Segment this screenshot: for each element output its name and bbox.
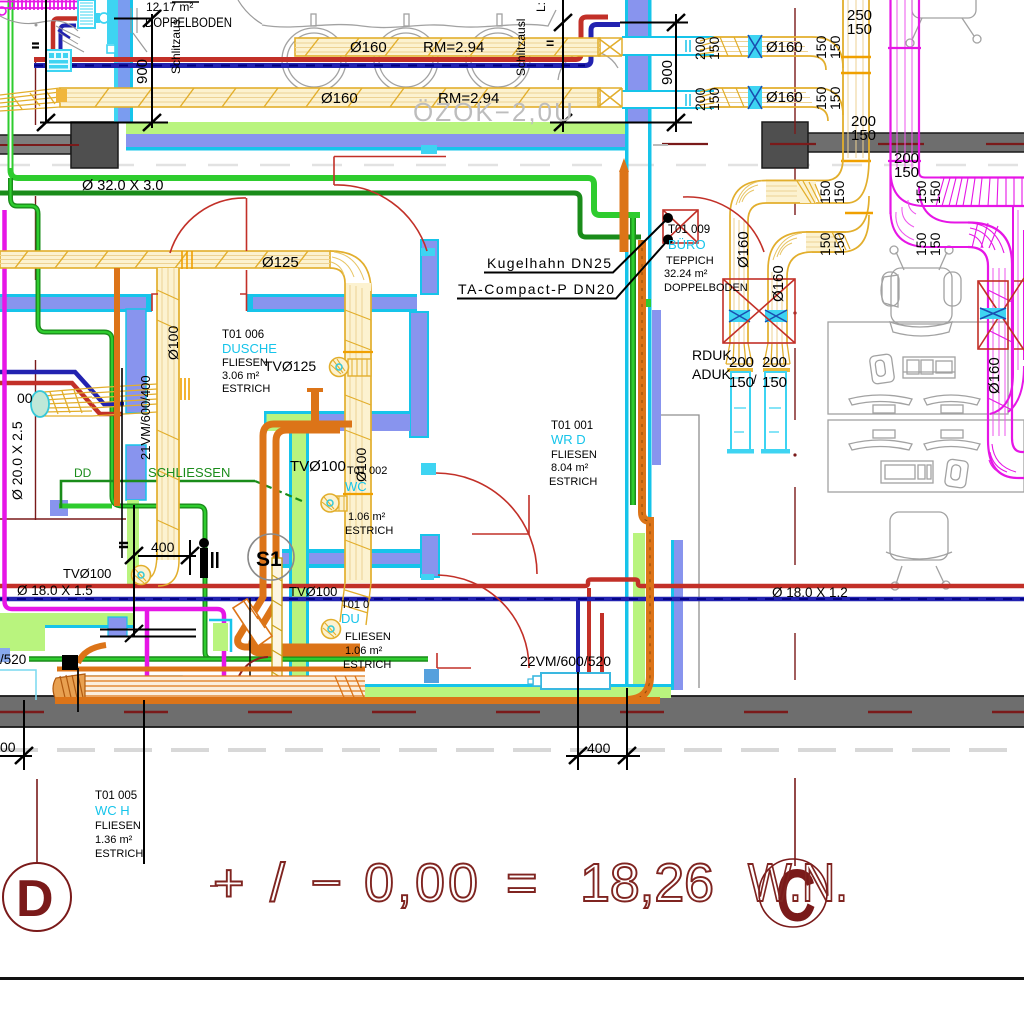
duct B nozzle bowtie right (598, 88, 622, 107)
dim 400 bottom (578, 672, 627, 770)
svg-text:900: 900 (659, 60, 676, 85)
svg-text:RM=2.94: RM=2.94 (423, 39, 484, 56)
keyboard curved desk1 left (849, 395, 912, 405)
pipe bright green in shaft (630, 218, 636, 505)
svg-text:ESTRICH: ESTRICH (95, 848, 143, 860)
terminal TV0125 stub (348, 359, 371, 376)
WC-H cyan line under (45, 625, 133, 628)
axis dash maroon bottom corridor (0, 711, 1024, 713)
cyan line bottom left corner (0, 670, 36, 700)
svg-text:150: 150 (827, 86, 843, 110)
svg-text:TVØ100: TVØ100 (63, 566, 111, 581)
duct flange ticks under nozzles (727, 368, 753, 372)
valve dot TA-Compact (663, 235, 673, 245)
door leaf gray top left (131, 8, 147, 52)
dim 400 mid-left (134, 505, 190, 636)
grid line C lower stem (794, 778, 796, 866)
duct run B nozzle (764, 343, 790, 364)
duct A nozzle bowtie (598, 38, 622, 56)
red niche lines WRD (472, 495, 529, 534)
office chair lower (890, 512, 948, 560)
light blue block left edge (0, 648, 10, 662)
svg-text:/520: /520 (0, 652, 26, 667)
marker box red T01009 (663, 210, 698, 243)
corridor wall shaft: cyan line west (625, 0, 629, 697)
wall vertical left: lavender (118, 0, 130, 122)
duct yellow narrow riser WC (272, 558, 282, 688)
wall band top: cyan edge (126, 147, 628, 151)
pipe blue bottom (0, 597, 1024, 602)
duct run A vertical (730, 216, 748, 343)
duct B damper cyan (748, 86, 762, 109)
svg-text:150: 150 (762, 374, 787, 391)
svg-text:FLIESEN: FLIESEN (345, 631, 391, 643)
svg-text:150: 150 (706, 87, 722, 111)
duct V4 vertical (157, 268, 179, 560)
svg-text:200: 200 (729, 354, 754, 371)
duct V5 elbow to upper run (891, 170, 941, 206)
svg-text:FLIESEN: FLIESEN (95, 820, 141, 832)
door arc WC bottom (437, 575, 529, 668)
black square symbol (62, 655, 78, 670)
duct magenta V5 vertical (891, 0, 920, 214)
keyboard curved desk2 left (849, 440, 912, 450)
damper cyan on V6 (980, 308, 1006, 319)
lavender block x50 (50, 500, 68, 516)
svg-text:150: 150 (894, 164, 919, 181)
svg-text:Ø125: Ø125 (262, 254, 299, 271)
bottom wall cyan line (300, 684, 671, 688)
grid line D lower stem (36, 779, 38, 863)
dim x00 bottom left (23, 700, 25, 770)
valve black S1 area (199, 538, 209, 548)
terminal TV0100 stub upper (330, 496, 347, 511)
duct V1 lower joint tick (845, 212, 873, 214)
WC-H room top wall light green (0, 613, 133, 625)
svg-text:22VM/600/520: 22VM/600/520 (520, 653, 611, 669)
room partition gray BURO (653, 415, 699, 688)
svg-text:FLIESEN: FLIESEN (551, 449, 597, 461)
wall stub C cyan bottom line (282, 564, 421, 568)
svg-text:DUSCHE: DUSCHE (222, 341, 277, 356)
wall lavender east of shaft (652, 310, 661, 465)
svg-text:Ø 32.0 X 3.0: Ø 32.0 X 3.0 (82, 178, 163, 194)
wall band top: lavender strip (126, 134, 628, 147)
svg-text:SCHLIESSEN: SCHLIESSEN (148, 465, 230, 480)
pipe green dashed diagonal (255, 481, 302, 501)
svg-text:T01 009: T01 009 (668, 224, 710, 236)
door jamb cyan cap lower (421, 574, 434, 580)
svg-text:150: 150 (851, 127, 876, 144)
svg-text:T01 006: T01 006 (222, 329, 264, 341)
office chair top-right partial (912, 0, 976, 18)
corridor centerline dashed light top (0, 164, 1024, 167)
door arc BURO (683, 197, 764, 252)
svg-text:Ø160: Ø160 (350, 39, 387, 56)
duct B inlet square orange (56, 89, 67, 102)
svg-text:L:: L: (534, 2, 548, 12)
border line bottom (0, 977, 1024, 980)
door jamb cyan band top band opening (421, 145, 437, 154)
corridor gray band bottom (0, 696, 1024, 727)
fire box red run AB (723, 279, 795, 343)
svg-text:ESTRICH: ESTRICH (345, 525, 393, 537)
svg-text:150: 150 (706, 36, 722, 60)
duct orange bundle cap hatched (53, 674, 85, 702)
corridor wall shaft: cyan line east (648, 0, 652, 533)
terminal TV0100 cap left (132, 566, 151, 585)
duct A band (O160 RM=2.94 upper) (295, 38, 600, 56)
section line black in duct zone (249, 598, 251, 688)
heater radiator 22VM (541, 673, 610, 689)
wall WC north cyan edge (264, 411, 410, 414)
small maroon tick right of D (210, 885, 218, 887)
wall vertical left: cyan strip lower (114, 44, 118, 122)
svg-text:S1: S1 (256, 548, 282, 571)
svg-text:TEPPICH: TEPPICH (666, 255, 714, 267)
terminal TV0100 cap lower (322, 620, 341, 639)
pipe blue top (34, 25, 620, 66)
duct V1 vertical in shaft (843, 0, 869, 160)
small cyan box under bar (107, 45, 115, 53)
svg-text:150: 150 (831, 232, 847, 256)
svg-text:/: / (753, 372, 757, 387)
duct C tee ticks at V4 branch (182, 251, 192, 269)
wall WC west: cyan line (289, 420, 292, 686)
wall vertical B1 above band (421, 240, 438, 294)
wall vertical left bath: lavender upper (126, 309, 146, 413)
svg-text:400: 400 (587, 740, 611, 756)
svg-text:Ø100: Ø100 (165, 326, 181, 360)
ceiling lamp circle 4 (558, 51, 618, 80)
svg-text:WR D: WR D (551, 432, 586, 447)
pipe red diagonal bath (0, 383, 122, 414)
pipe blue top dash pattern (34, 65, 585, 67)
svg-text:400: 400 (151, 539, 175, 555)
fan coil unit box (46, 50, 71, 71)
bed post 2 (404, 14, 409, 26)
svg-text:T01 001: T01 001 (551, 420, 593, 432)
counter curve gray (0, 16, 78, 31)
wall gray band left (0, 135, 71, 154)
wall pier dark left (71, 122, 118, 168)
svg-text:BÜRO: BÜRO (668, 237, 706, 252)
svg-text:00: 00 (17, 390, 33, 406)
duct magenta V7 right edge (1013, 206, 1024, 374)
desk 2 BURO (828, 420, 1024, 492)
monitor on desk1 (903, 357, 955, 378)
door jamb blue block bottom (424, 669, 439, 683)
duct V3 bottom transition (340, 583, 371, 625)
svg-text:=: = (546, 35, 554, 51)
pipe orange long horizontal (57, 667, 365, 672)
pipe red equipment elbow (53, 19, 78, 51)
magenta circle left edge (0, 7, 6, 15)
axis dash maroon top corridor left (0, 144, 79, 146)
svg-text:TVØ125: TVØ125 (264, 358, 316, 374)
wall band top: light green strip (126, 122, 628, 134)
corridor west wall: lavender (674, 540, 683, 690)
dim 900 left frame (46, 0, 152, 128)
light green vertical x127 (127, 500, 139, 585)
monitor on desk2 (881, 461, 933, 483)
svg-text:RDUK: RDUK (692, 347, 732, 363)
duct V3 vertical (345, 283, 371, 583)
svg-text:1.36 m²: 1.36 m² (95, 834, 133, 846)
counter curve gray right (238, 0, 262, 24)
svg-text:DU: DU (341, 611, 360, 626)
duct drop rect ADUK (765, 372, 786, 450)
damper cyan on run B (765, 310, 787, 322)
equals mark left (32, 44, 39, 48)
svg-text:Ø160: Ø160 (321, 90, 358, 107)
duct A damper cyan (748, 35, 762, 58)
damper cyan on run A (729, 310, 750, 322)
svg-text:8.04 m²: 8.04 m² (551, 462, 589, 474)
bed post 3 (497, 14, 502, 26)
duct B band (O160 lower) (60, 88, 600, 107)
svg-text:TVØ100: TVØ100 (289, 584, 337, 599)
door arc WRD (436, 473, 537, 574)
duct V5 elbow to lower run (891, 186, 969, 247)
svg-text:Ø 20.0 X 2.5: Ø 20.0 X 2.5 (9, 421, 25, 500)
equals mark mid (119, 543, 128, 547)
duct run A nozzle (726, 343, 752, 364)
dim 900 mid frame (563, 0, 676, 132)
pipe red top (34, 17, 608, 60)
duct A right of wall + elbow down (714, 37, 843, 70)
svg-text:DOPPELBODEN: DOPPELBODEN (145, 15, 232, 30)
svg-text:Ø160: Ø160 (735, 231, 752, 268)
valve green square (643, 299, 651, 307)
cyan outline rect near orange bundle (82, 676, 182, 696)
ceiling lamp circle 1 (282, 28, 346, 92)
section circle S1 (248, 534, 294, 580)
svg-text:Schlitzaus: Schlitzaus (169, 19, 183, 74)
fire box red on V6 (978, 278, 1024, 350)
wall WC north lavender part (313, 414, 410, 431)
wall vertical B2 below band (410, 312, 428, 437)
pipe blue bottom dash pattern (0, 598, 1024, 600)
heat exchanger coil top left (78, 0, 95, 28)
svg-text:200: 200 (762, 354, 787, 371)
svg-text:150: 150 (927, 232, 943, 256)
duct D nozzle cone left (44, 388, 92, 416)
keyboard curved desk1 right (924, 395, 980, 405)
desk 1 BURO (828, 322, 1008, 414)
svg-text:+/−: +/− (213, 853, 342, 913)
svg-text:ESTRICH: ESTRICH (549, 476, 597, 488)
wall pier lavender between doors (421, 535, 439, 577)
wall vertical left: cyan bar (107, 0, 118, 44)
keyboard curved desk2 right (924, 440, 980, 450)
svg-text:DOPPELBODEN: DOPPELBODEN (664, 282, 748, 294)
pipe orange bath O2 (252, 430, 360, 653)
valve dot Kugelhahn (663, 213, 673, 223)
svg-text:150: 150 (729, 374, 754, 391)
pipe bright green stub left (59, 504, 112, 509)
pipe orange riser at shaft (114, 268, 120, 506)
wall stub C cyan top line (282, 549, 421, 553)
pipe red drop U (589, 588, 602, 684)
door arc room top-left (152, 198, 247, 311)
door arc hall top (334, 157, 446, 252)
duct V1 joint tick (841, 160, 871, 163)
svg-text:T01 0: T01 0 (341, 599, 369, 611)
terminal TV0100 cap upper (321, 494, 339, 512)
svg-text:900: 900 (134, 59, 151, 84)
dim vertical x122 (121, 368, 123, 558)
grid line C maroon x795 dash-dot (794, 8, 796, 680)
svg-text:32.24 m²: 32.24 m² (664, 268, 708, 280)
pipe blue diagonal bath (0, 372, 124, 404)
pipe dark green main (0, 193, 641, 237)
svg-text:=: = (506, 853, 538, 913)
tiny gray dash corridor gap (653, 144, 668, 146)
pipe orange small bend (78, 645, 106, 663)
pipe green long low horizontal (29, 656, 428, 662)
svg-text:Ø 18.0 X 1.2: Ø 18.0 X 1.2 (772, 585, 848, 600)
duct magenta V6 vertical hatched (988, 264, 1012, 440)
svg-text:150: 150 (831, 180, 847, 204)
cyan duct outline pair upper (wall crossing) (623, 37, 653, 108)
svg-text:1.06 m²: 1.06 m² (345, 645, 383, 657)
wall orange band bottom (55, 697, 660, 704)
duct D band diagonal (92, 384, 157, 416)
keyboard pads desk2 (873, 430, 895, 438)
svg-text:ESTRICH: ESTRICH (343, 659, 391, 671)
svg-text:Ø160: Ø160 (770, 265, 787, 302)
duct V7 merge bend (990, 366, 1024, 414)
svg-text:ESTRICH: ESTRICH (222, 383, 270, 395)
wall stub A left lavender (0, 297, 150, 309)
svg-text:Ø160: Ø160 (766, 39, 803, 56)
corridor gray band top right (806, 133, 1024, 152)
duct V4 bend to terminal (149, 552, 179, 586)
centerline cross maroon y519 (0, 518, 126, 520)
svg-text:18,26: 18,26 (580, 853, 714, 913)
corridor west wall: cyan line (671, 540, 674, 690)
duct drop rect RDUK (731, 372, 750, 450)
door tick marks II (211, 552, 214, 568)
svg-text:T01 002: T01 002 (347, 465, 387, 477)
wall stub A cyan edges (0, 294, 150, 297)
duct orange bundle right hatch (335, 676, 365, 700)
WC-H room light green block (0, 625, 45, 651)
grid bubble C (759, 859, 827, 927)
wall pier dark right (762, 122, 808, 168)
svg-text:0,00: 0,00 (364, 853, 478, 913)
ceiling lamp circle 2 (374, 28, 438, 92)
duct D nozzle cap (31, 391, 49, 417)
svg-text:Ø160: Ø160 (766, 89, 803, 106)
corridor centerline dashed light bottom (0, 748, 1024, 752)
svg-text:150: 150 (827, 35, 843, 59)
office chair middle (881, 275, 898, 307)
pipe orange shaft main (626, 240, 650, 700)
duct orange diagonal transition b (243, 600, 265, 628)
svg-text:WC H: WC H (95, 803, 130, 818)
wall WC west: cyan line east (306, 430, 309, 684)
svg-text:RM=2.94: RM=2.94 (438, 90, 499, 107)
svg-text:3.06 m²: 3.06 m² (222, 370, 260, 382)
door jamb cyan lower (421, 248, 435, 256)
duct B right of wall + elbow down (714, 88, 843, 121)
duct orange flat bundle (80, 676, 365, 700)
phone on desk1 (869, 354, 895, 385)
phone on desk2 (944, 459, 969, 489)
svg-text:TVØ100: TVØ100 (290, 458, 346, 475)
pipe orange bath O1 (238, 424, 360, 647)
svg-text:Ø160: Ø160 (986, 357, 1003, 394)
pipe green text DD (61, 481, 255, 508)
grid line D maroon x35 (35, 57, 37, 520)
duct elbow EB to run B (768, 232, 812, 277)
duct V3 joint ticks (343, 351, 373, 353)
radiator magenta top left (0, 0, 78, 10)
duct orange diagonal transition a (233, 599, 272, 646)
wall cyan light green corner WC (209, 620, 231, 652)
bottom wall light green band (282, 687, 671, 698)
leader Kugelhahn (484, 218, 668, 273)
pipe orange riser stub (311, 391, 319, 422)
duct run B vertical (768, 270, 787, 343)
duct B fan-in nozzle left (0, 88, 60, 111)
svg-text:1.06 m²: 1.06 m² (348, 511, 386, 523)
pipe blue equipment elbow (61, 26, 77, 51)
dim vertical x78 (77, 668, 79, 712)
bed/sofa outline top (262, 10, 556, 28)
duct V6 bottom elbow exit right (988, 438, 1024, 478)
door jamb cyan cap WRD (421, 463, 436, 475)
svg-text:WC: WC (345, 479, 367, 494)
svg-text:150: 150 (847, 21, 872, 38)
duct D tee ticks at V4 (181, 378, 189, 400)
pipe bright green main (11, 0, 641, 215)
pipe orange shaft upper (620, 170, 629, 252)
wall stub B lavender (251, 297, 417, 309)
svg-text:ADUK: ADUK (692, 366, 732, 382)
axis dash maroon top corridor right (662, 143, 1024, 145)
svg-text:00: 00 (0, 739, 16, 755)
svg-text:150: 150 (927, 180, 943, 204)
duct run U2 (to BURO lower) (806, 232, 836, 252)
pipe dark green branch left (11, 178, 213, 659)
svg-text:21VM/600/400: 21VM/600/400 (138, 375, 153, 460)
duct run U1 (to BURO upper) (766, 181, 816, 203)
pipe magenta left riser (5, 210, 225, 688)
section line vertical x144 (143, 700, 145, 864)
pipe bright green core over branch (11, 178, 213, 659)
duct C band O125 (0, 251, 330, 268)
duct magenta upper run hatched (940, 178, 1024, 207)
duct magenta elbow down right (968, 223, 1012, 267)
wall WC north light green part (266, 414, 313, 431)
svg-text:Ø 18.0 X 1.5: Ø 18.0 X 1.5 (17, 583, 93, 598)
svg-text:W.N.: W.N. (748, 853, 848, 913)
coil flange (95, 13, 100, 23)
bed post 1 (311, 14, 316, 26)
ceiling lamp circle 3 (466, 28, 530, 92)
wall WC west: light green (292, 420, 306, 686)
lavender block small mid (108, 617, 127, 636)
duct V5 joint ticks (888, 47, 921, 49)
wall vertical left bath: lavender lower (126, 445, 146, 500)
coil knob (99, 13, 109, 23)
wall stub B cyan cap (247, 294, 253, 312)
wall stub B cyan edges (248, 294, 417, 297)
duct V1 hook to lower run (806, 196, 869, 252)
